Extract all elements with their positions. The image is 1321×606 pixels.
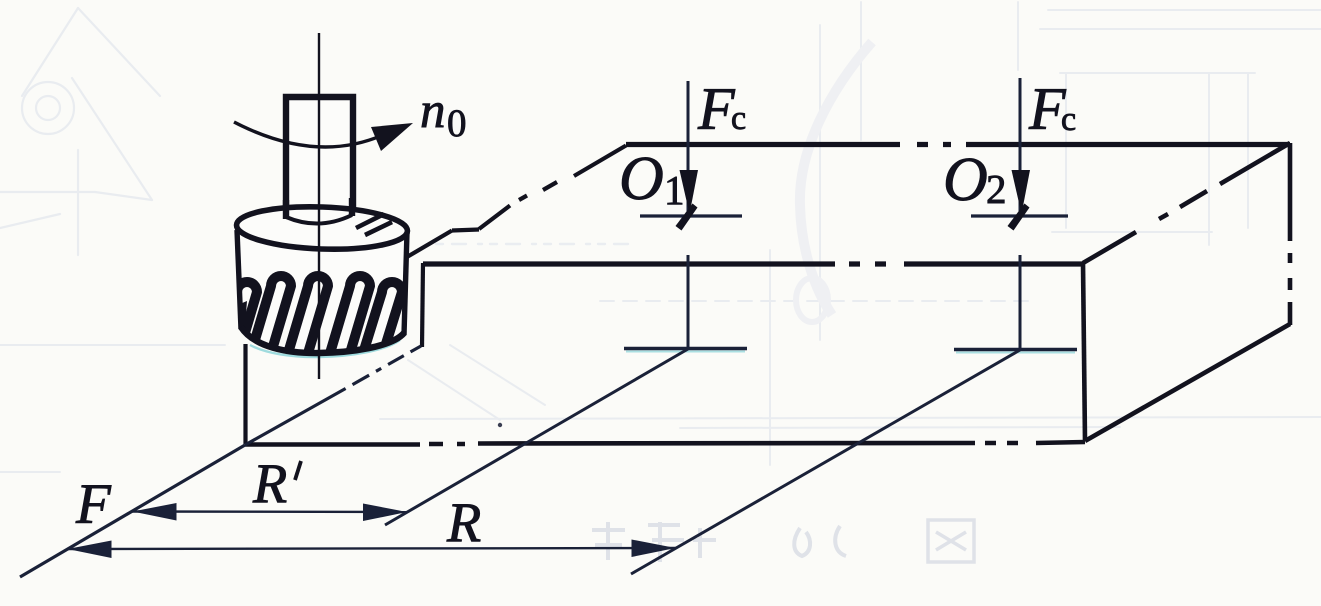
svg-text:O: O (619, 145, 664, 213)
svg-text:2: 2 (986, 166, 1007, 212)
svg-text:O: O (943, 146, 988, 214)
svg-text:F: F (75, 473, 112, 536)
svg-text:c: c (731, 100, 746, 137)
svg-text:1: 1 (664, 167, 685, 213)
svg-text:c: c (1061, 101, 1076, 138)
svg-text:R: R (252, 453, 287, 515)
svg-text:n: n (420, 83, 446, 139)
svg-text:0: 0 (447, 102, 467, 145)
svg-text:R: R (446, 492, 481, 554)
